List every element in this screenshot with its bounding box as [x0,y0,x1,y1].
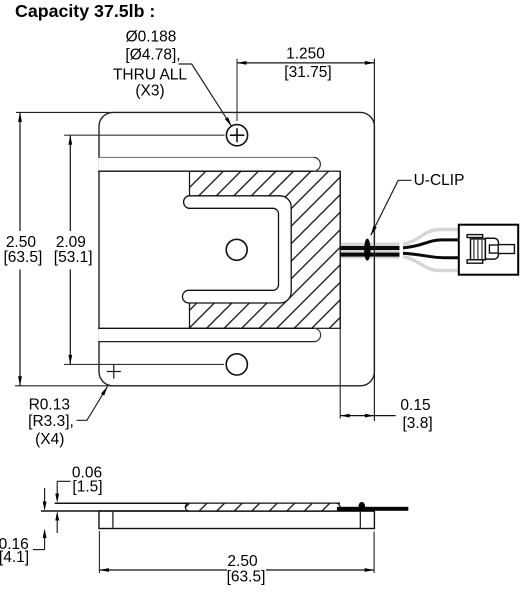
svg-text:(X3): (X3) [135,82,164,99]
svg-text:[63.5]: [63.5] [4,249,43,266]
svg-text:[1.5]: [1.5] [72,479,102,496]
svg-text:[R3.3],: [R3.3], [28,413,74,430]
svg-text:U-CLIP: U-CLIP [414,172,465,189]
svg-text:[3.8]: [3.8] [403,415,433,432]
svg-text:[63.5]: [63.5] [227,568,266,585]
svg-text:1.250: 1.250 [286,46,325,63]
svg-text:[31.75]: [31.75] [284,64,331,81]
svg-text:(X4): (X4) [35,431,64,448]
svg-text:THRU ALL: THRU ALL [113,66,187,83]
svg-text:Ø0.188: Ø0.188 [126,28,177,45]
svg-text:[Ø4.78],: [Ø4.78], [125,47,180,64]
svg-text:R0.13: R0.13 [29,397,70,414]
svg-text:[4.1]: [4.1] [0,549,29,566]
svg-text:Capacity 37.5lb :: Capacity 37.5lb : [15,1,155,21]
svg-text:[53.1]: [53.1] [54,249,93,266]
svg-text:0.15: 0.15 [400,397,430,414]
